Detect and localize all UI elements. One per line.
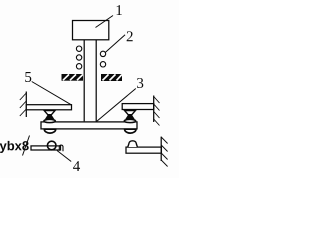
left roller circle c: [76, 64, 81, 69]
svg-text:ybx8: ybx8: [0, 138, 29, 153]
right bowtie linkage: [125, 111, 136, 120]
left roller circle a: [76, 46, 81, 51]
svg-text:1: 1: [115, 3, 123, 19]
leader line to label 5: [32, 82, 72, 105]
right roller circle a (item 2): [100, 51, 105, 56]
left arm: [26, 105, 71, 110]
left clamp pad (hatched): [62, 74, 84, 81]
bottom-right rod: [126, 147, 161, 153]
top-right wall line: [153, 96, 155, 123]
top-right wall hatch ticks: [154, 97, 160, 126]
motor box (item 1): [73, 21, 109, 40]
trolley wheel (item 4): [47, 141, 56, 150]
right clamp pad (hatched): [101, 74, 122, 81]
svg-text:4: 4: [73, 159, 81, 175]
left wheel below beam: [44, 129, 55, 133]
bottom-right wall hatch ticks: [161, 137, 167, 167]
trolley hook: [59, 145, 63, 151]
stray diagonal over text: [23, 136, 30, 156]
trolley bar (item 4): [31, 146, 61, 150]
left bowtie linkage: [44, 111, 55, 120]
left wall hatch ticks: [20, 93, 27, 116]
svg-text:5: 5: [24, 70, 32, 86]
bottom-right wall line: [160, 137, 162, 161]
column (vertical ram, item 3 area): [83, 40, 85, 122]
leader line to label 4: [57, 151, 71, 162]
bottom-right dome: [128, 141, 138, 147]
left wheel above beam: [44, 119, 56, 122]
left roller circle b: [76, 55, 81, 60]
right wheel below beam: [125, 129, 136, 133]
leader line to label 1: [96, 16, 114, 28]
svg-text:2: 2: [126, 29, 134, 45]
svg-text:3: 3: [136, 76, 144, 92]
right arm: [122, 104, 154, 110]
main beam: [41, 122, 137, 129]
leader line to label 3: [97, 89, 136, 122]
right wheel above beam: [124, 119, 136, 122]
right roller circle b: [100, 62, 105, 67]
left wall line: [25, 92, 27, 118]
leader line to label 2: [106, 35, 126, 53]
